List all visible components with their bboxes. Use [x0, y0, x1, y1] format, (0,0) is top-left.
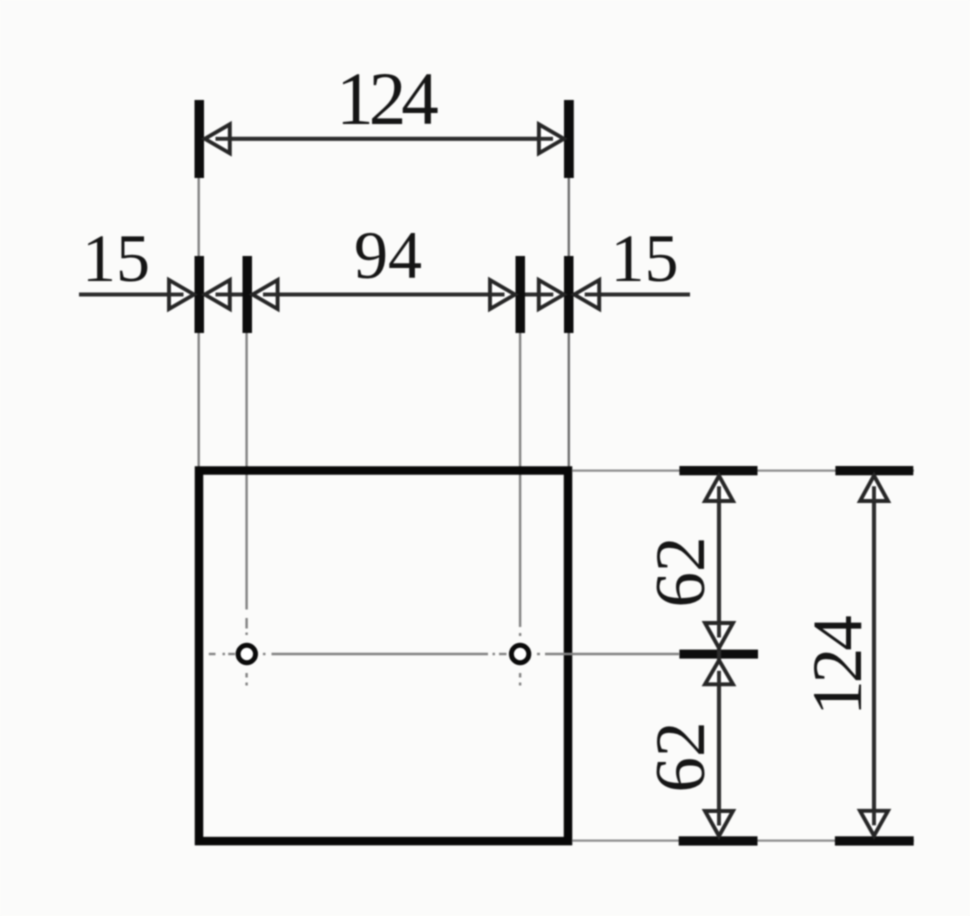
arrowhead up at top (124) — [860, 476, 888, 501]
arrowhead up at top tick — [705, 476, 733, 501]
arrowhead up below middle tick — [705, 660, 733, 684]
extension tick bar2 (left hole) — [243, 256, 253, 333]
arrowhead left of 124 top — [205, 124, 230, 153]
extension line plate-right upper segment — [568, 178, 570, 256]
svg-text:62: 62 — [642, 537, 720, 608]
dimension line 124 vertical — [872, 476, 876, 836]
arrowhead right of 124 top — [539, 124, 564, 153]
arrowhead A right-pointing at bar1 left — [169, 280, 194, 309]
extension tick bar3 (right hole) — [516, 256, 526, 333]
extension line right hole column — [519, 333, 521, 627]
arrowhead E right-pointing at bar4 left — [539, 280, 564, 309]
arrowhead down at bottom (124) — [860, 811, 888, 836]
arrowhead F left-pointing at bar4 right — [574, 280, 599, 309]
extension tick top-right (124 dim) — [564, 100, 574, 178]
tick bottom inner (62 dim) — [679, 836, 758, 845]
dimension line 124 top — [206, 137, 562, 141]
svg-text:15: 15 — [82, 220, 150, 296]
arrowhead C left-pointing at bar2 right — [253, 280, 278, 309]
extension tick top-left (124 dim) — [195, 100, 205, 178]
hole right — [511, 645, 528, 662]
plate outline — [199, 471, 568, 842]
hole left — [238, 645, 255, 662]
svg-text:124: 124 — [336, 58, 438, 141]
projection line top edge right — [572, 469, 914, 471]
centerline horizontal through holes — [209, 653, 679, 655]
arrowhead down at bottom tick — [705, 811, 733, 836]
svg-text:15: 15 — [611, 220, 679, 296]
dimension line row (15 / 94 / 15) — [79, 293, 690, 297]
extension line left hole column — [245, 333, 247, 610]
extension tick bar4 (plate right edge) — [564, 256, 574, 333]
extension tick bar1 (plate left edge) — [195, 256, 205, 333]
svg-text:62: 62 — [642, 722, 720, 793]
extension line plate-right lower segment — [568, 333, 570, 467]
projection line bottom edge right — [572, 839, 914, 841]
tick top outer (124 dim) — [835, 466, 913, 475]
tick middle (62/62 dim) — [679, 650, 758, 659]
tick bottom outer (124 dim) — [835, 836, 914, 845]
svg-text:94: 94 — [354, 217, 422, 293]
svg-text:124: 124 — [799, 616, 877, 716]
dimension line 62/62 vertical — [717, 476, 721, 836]
extension line plate-left upper segment — [197, 178, 199, 256]
extension line plate-left lower segment — [197, 333, 199, 467]
arrowhead D right-pointing at bar3 left — [490, 280, 515, 309]
arrowhead down above middle tick — [705, 623, 733, 648]
centerline vertical right hole — [519, 633, 521, 686]
arrowhead B left-pointing at bar1 right — [205, 280, 230, 309]
centerline vertical left hole — [245, 618, 247, 686]
tick top inner (62 dim) — [679, 466, 757, 475]
